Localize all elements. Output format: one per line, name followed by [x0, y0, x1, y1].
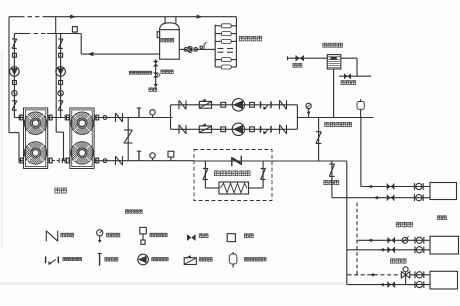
legend flex joint symbol	[227, 234, 235, 242]
dashed link between units	[52, 158, 65, 163]
label tank makeup	[149, 88, 157, 91]
wire tee between units	[48, 117, 70, 119]
t1 return arrow	[374, 196, 380, 200]
radiator 2	[215, 32, 236, 36]
flange unit2 right return	[95, 158, 99, 164]
fan 1A	[24, 112, 46, 134]
valve V1a	[12, 39, 17, 48]
label drain valve	[324, 180, 339, 184]
valve V2a	[58, 39, 63, 48]
t3 supply arrow	[370, 273, 376, 277]
joint column2 lower	[59, 81, 63, 85]
legend check valve text	[199, 258, 212, 262]
heater right valve	[261, 169, 266, 180]
flow arrow on top header	[70, 15, 76, 19]
t2 return valve	[388, 247, 395, 253]
radiator 5	[215, 65, 236, 69]
legend thermometer symbol	[97, 253, 101, 265]
gauge column2	[58, 91, 63, 96]
terminal2 supply pipe	[357, 239, 430, 241]
wire unit return line	[94, 160, 194, 162]
drain valve	[329, 164, 334, 176]
expansion tank	[327, 55, 341, 69]
flange unit2 left return	[65, 158, 69, 164]
legend flow switch symbol	[140, 227, 147, 244]
legend gate valve symbol	[187, 234, 196, 241]
wire pump branch 2	[171, 128, 298, 130]
flow arrow to tank line	[87, 52, 94, 56]
fan 1B	[24, 142, 46, 164]
label auxiliary electric heater	[214, 171, 250, 176]
flex joint branch2 out	[250, 127, 255, 132]
water flow switch FS	[168, 151, 174, 160]
terminal1 return pipe	[332, 197, 430, 199]
manifold right	[296, 105, 298, 130]
wire second header	[14, 33, 81, 35]
drain arrow	[154, 84, 158, 88]
valve on return	[116, 156, 123, 165]
tank outlet pipe	[179, 48, 215, 50]
tank drain valve	[153, 72, 160, 77]
expansion tank drop	[333, 69, 335, 118]
heater left valve	[203, 169, 208, 180]
wire supply header right	[297, 117, 373, 119]
stop valve column 2 upper	[60, 34, 62, 118]
tank solenoid valve	[153, 61, 159, 67]
t3 supply flange	[415, 271, 424, 278]
gauge column1	[12, 91, 17, 96]
wire top supply header	[9, 16, 236, 18]
label expansion tank	[323, 43, 343, 47]
valve on supply	[116, 113, 123, 122]
bypass valve big	[124, 130, 133, 143]
wire riser to unit 2 return	[56, 34, 65, 161]
wire column1 to unit1	[14, 117, 23, 119]
chiller unit 2 (main unit)	[70, 108, 94, 169]
three-way valve TW	[401, 267, 409, 278]
label contact thermometer	[129, 71, 151, 74]
wire left riser to unit 1 return	[9, 17, 24, 161]
flange unit2 left supply	[65, 115, 69, 121]
stop valve branch1 outlet	[280, 100, 287, 109]
pressure differential bypass valve	[316, 132, 321, 144]
t3 return flange	[415, 281, 424, 288]
Y-strainer branch1	[261, 101, 272, 110]
terminal3 return pipe	[347, 284, 430, 286]
label hot water users	[239, 36, 261, 41]
label main units	[55, 188, 67, 193]
heater right branch	[249, 161, 264, 188]
radiator 4	[215, 58, 236, 62]
chiller unit 1 (main unit)	[24, 108, 48, 169]
wire riser connector	[55, 17, 57, 34]
legend stop valve symbol	[46, 231, 57, 241]
legend air vent text	[244, 258, 266, 262]
wire bypass drop	[127, 118, 129, 161]
radiator 3	[215, 39, 236, 43]
t1 supply valve	[387, 184, 394, 190]
check valve branch1	[199, 99, 211, 108]
circulating pump CP1	[232, 99, 244, 111]
storage tank	[160, 23, 180, 59]
heater dashed enclosure	[194, 150, 272, 201]
circulating pump CP2	[232, 123, 244, 135]
stop valve column 1 upper	[13, 34, 15, 118]
dashed supply riser	[356, 203, 358, 275]
Y-strainer branch2	[261, 126, 272, 135]
tank level gauge	[157, 32, 159, 38]
radiator left rail	[214, 25, 216, 67]
t2 supply valve	[388, 237, 395, 243]
t3 return valve	[388, 282, 395, 288]
flange unit1 left return	[19, 158, 23, 164]
valve V2b	[58, 101, 63, 110]
wire return to riser	[272, 160, 347, 162]
joint column2	[59, 53, 63, 57]
tank top pipe right	[175, 17, 177, 24]
t1 supply flange	[414, 183, 423, 190]
legend gate valve text	[199, 234, 208, 238]
stop valve branch2 inlet	[179, 125, 186, 134]
tank drain pipe	[155, 59, 157, 84]
heater left branch	[205, 161, 219, 188]
pressure bypass drop	[318, 118, 320, 162]
label storage tank	[161, 38, 174, 42]
label terminal	[438, 216, 447, 220]
flex joint branch1 in	[221, 102, 226, 107]
flange unit1 right supply	[48, 115, 52, 121]
terminal2 return pipe	[347, 249, 430, 251]
legend pump symbol	[138, 254, 149, 265]
fan 2A	[71, 112, 93, 134]
t1 supply arrow	[368, 185, 374, 189]
stop valve branch1 inlet	[179, 100, 186, 109]
t2 supply flange	[415, 237, 424, 244]
wire through heater box	[194, 160, 272, 162]
flex joint branch1 out	[250, 102, 255, 107]
legend strainer symbol	[46, 256, 59, 265]
wire pump branch 1	[171, 104, 298, 106]
radiator 1	[215, 24, 236, 28]
t3 valve branch	[405, 275, 407, 285]
legend air vent symbol	[229, 252, 237, 268]
two-way valve TV	[402, 236, 409, 243]
legend title	[125, 210, 142, 213]
thermometer T2	[137, 151, 141, 161]
union hw2	[194, 48, 198, 52]
joint column1	[12, 53, 16, 57]
t1 return valve	[387, 195, 394, 201]
manifold left	[170, 105, 172, 130]
flange unit2 right supply	[95, 115, 99, 121]
legend flex joint text	[244, 234, 253, 238]
scan artifact left	[1, 52, 3, 248]
joint column1 lower	[12, 81, 16, 85]
t2 supply arrow	[368, 238, 374, 242]
flex joint branch2 in	[221, 127, 226, 132]
return riser	[346, 161, 348, 285]
terminal1 supply pipe	[361, 186, 430, 188]
stop valve branch2 outlet	[280, 125, 287, 134]
pressure gauge G1	[150, 110, 155, 118]
label makeup water	[293, 63, 302, 67]
wire header to tank drop	[81, 34, 159, 55]
legend check valve symbol	[184, 255, 196, 264]
drain valve exp tank	[344, 73, 351, 79]
flange unit1 right return	[48, 158, 52, 164]
t3 return arrow	[380, 283, 386, 287]
terminal3 supply pipe (dashed)	[348, 274, 431, 276]
check valve branch2	[199, 123, 211, 132]
t1 return flange	[414, 194, 423, 201]
legend pressure gauge symbol	[97, 230, 103, 243]
union on supply	[103, 116, 107, 120]
closed valve in heater box	[232, 156, 242, 167]
hw valve with lever	[200, 42, 207, 50]
drain branch	[331, 161, 333, 198]
label exp drain	[341, 81, 356, 85]
tank top pipe left	[164, 17, 166, 25]
t2 return arrow	[380, 248, 386, 252]
label tank drain valve	[161, 70, 173, 73]
wire unit outlet supply	[94, 117, 172, 119]
thermometer T1	[137, 108, 141, 118]
legend pump text	[152, 258, 168, 261]
flow switch on second header	[72, 27, 77, 34]
makeup water pipe	[288, 56, 328, 60]
terminal unit 2	[430, 236, 459, 254]
t2 return flange	[415, 246, 424, 253]
legend thermometer text	[105, 258, 118, 262]
radiator continuation dashes	[218, 49, 234, 53]
legend stop valve text	[61, 233, 74, 237]
makeup valve	[296, 55, 304, 61]
scan streak	[0, 282, 345, 284]
union hw1	[184, 48, 188, 52]
label two-way valve	[396, 222, 412, 227]
valve V1b	[12, 101, 17, 110]
union on return	[103, 159, 107, 163]
electric heater element	[219, 182, 249, 194]
auto air vent	[306, 103, 311, 117]
legend pressure gauge text	[107, 233, 120, 237]
safety flask	[357, 99, 364, 117]
pump P1 (vertical)	[10, 67, 20, 77]
flow arrow near radiators	[197, 15, 203, 19]
terminal unit 3	[430, 271, 458, 289]
supply riser	[360, 118, 362, 187]
label three-way valve	[391, 259, 407, 263]
legend strainer text	[63, 258, 82, 261]
terminal unit 1	[430, 183, 457, 200]
expansion tank right pipe	[339, 58, 371, 76]
pressure gauge G2	[150, 153, 155, 161]
pump P2 (vertical)	[56, 67, 66, 77]
hot water pump	[187, 46, 194, 53]
fan 2B	[71, 142, 93, 164]
radiator right rail	[235, 17, 237, 67]
flange unit1 left supply	[19, 115, 23, 121]
legend flow switch text	[150, 233, 167, 237]
label pressure bypass	[325, 122, 352, 126]
